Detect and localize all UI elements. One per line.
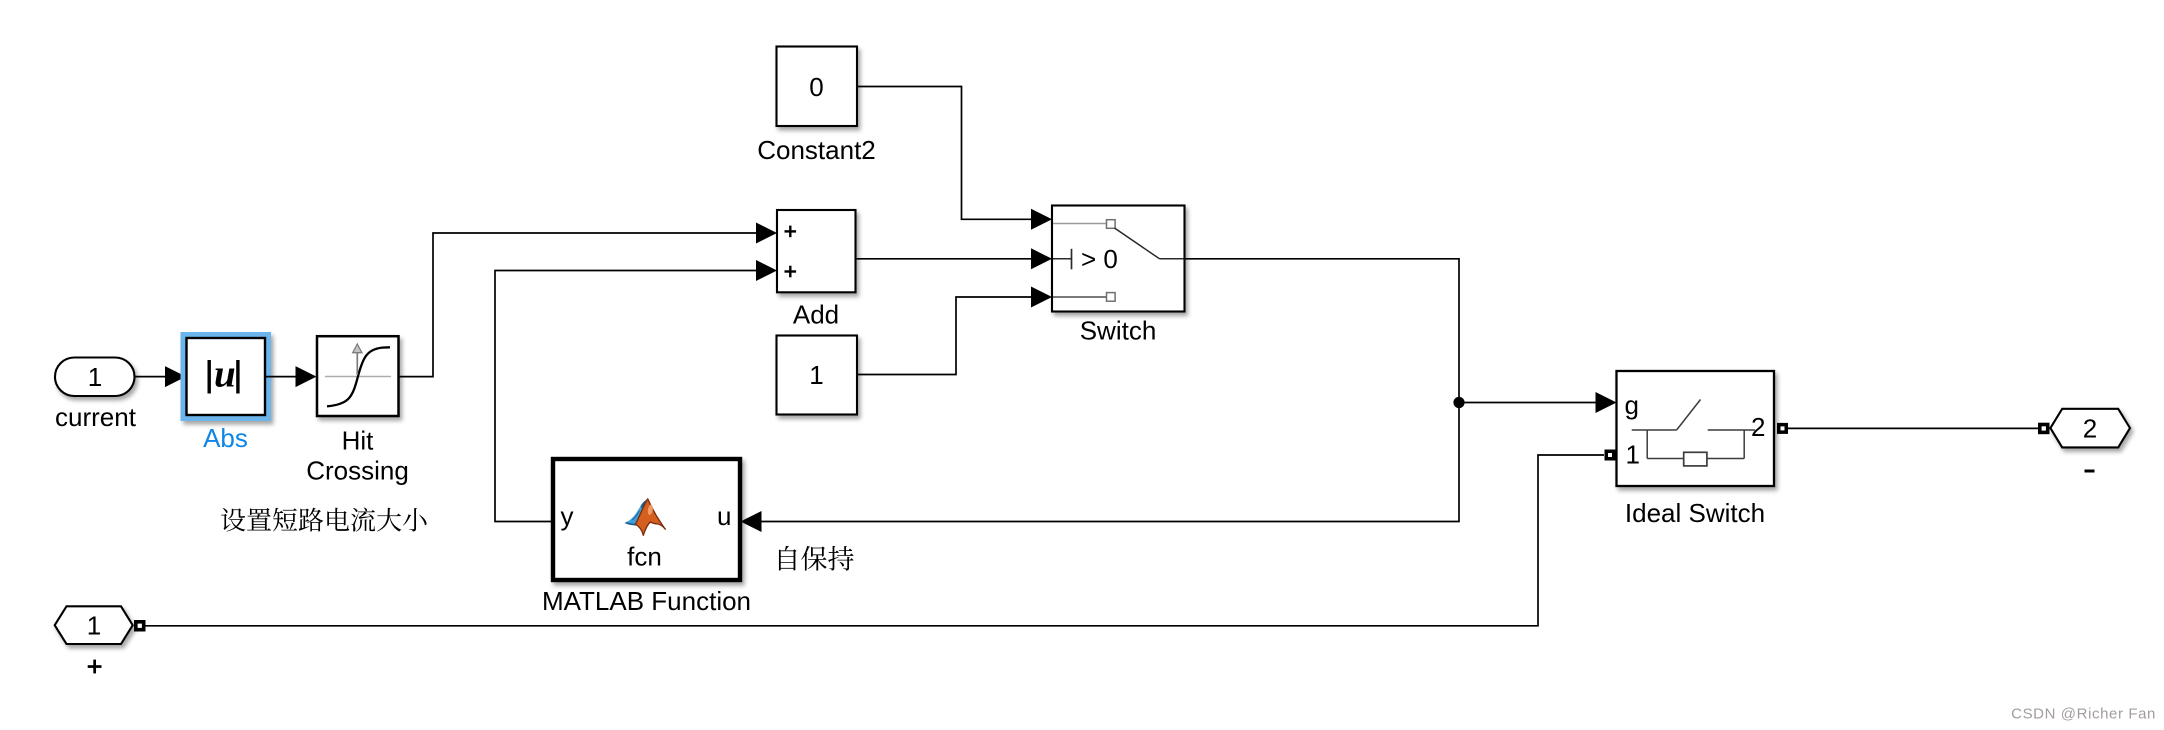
block Constant1 (value 1) bbox=[777, 336, 858, 415]
svg-text:0: 0 bbox=[809, 72, 823, 102]
svg-text:CSDN @Richer Fan: CSDN @Richer Fan bbox=[2011, 706, 2156, 723]
port square inport1 bbox=[134, 620, 146, 632]
block Add bbox=[777, 210, 856, 292]
svg-text:g: g bbox=[1625, 390, 1639, 420]
svg-text:u: u bbox=[717, 501, 731, 531]
svg-text:2: 2 bbox=[1751, 412, 1765, 442]
wire Constant1 to Switch in3 bbox=[857, 297, 1032, 375]
port square Ideal Switch 2 bbox=[1777, 423, 1788, 434]
svg-text:Hit: Hit bbox=[342, 426, 375, 456]
svg-text:current: current bbox=[55, 402, 137, 432]
wire inport1 to Abs bbox=[135, 376, 167, 378]
block Ideal Switch bbox=[1617, 371, 1775, 486]
wire inport1 to Ideal Switch port1 bbox=[146, 455, 1605, 626]
label + bbox=[88, 660, 102, 674]
svg-text:1: 1 bbox=[1626, 440, 1640, 470]
wire Abs to Hit Crossing bbox=[265, 376, 296, 378]
svg-text:y: y bbox=[561, 501, 574, 531]
block Switch bbox=[1052, 206, 1185, 312]
label - bbox=[2085, 470, 2095, 473]
svg-text:u: u bbox=[214, 353, 236, 396]
svg-text:Switch: Switch bbox=[1080, 316, 1157, 346]
wire junction to Ideal Switch g bbox=[1459, 402, 1596, 404]
block Constant2 bbox=[777, 47, 858, 127]
svg-text:Add: Add bbox=[793, 300, 839, 330]
wire Constant2 to Switch in1 bbox=[857, 87, 1032, 220]
svg-text:MATLAB Function: MATLAB Function bbox=[542, 586, 751, 616]
inport 1 (current) oval bbox=[55, 358, 135, 397]
wire Ideal Switch port2 to outport bbox=[1788, 427, 2038, 429]
svg-text:1: 1 bbox=[87, 611, 101, 641]
block Abs (selected) bbox=[184, 335, 269, 418]
junction node bbox=[1453, 397, 1464, 408]
port square Ideal Switch 1 bbox=[1605, 450, 1616, 461]
svg-text:1: 1 bbox=[88, 362, 102, 392]
wire HitCrossing to Add in1 bbox=[399, 233, 757, 377]
wire Add to Switch in2 bbox=[856, 258, 1032, 260]
block MATLAB Function bbox=[553, 459, 740, 580]
wire Switch out feedback to MATLAB u bbox=[762, 259, 1460, 522]
inport hexagon 1 (+) bbox=[55, 606, 133, 644]
svg-text:Constant2: Constant2 bbox=[757, 135, 876, 165]
svg-text:> 0: > 0 bbox=[1081, 244, 1118, 274]
svg-text:fcn: fcn bbox=[627, 542, 662, 572]
block Hit Crossing bbox=[317, 336, 399, 416]
annotation 设置短路电流大小 bbox=[221, 507, 426, 531]
svg-text:Crossing: Crossing bbox=[306, 456, 409, 486]
svg-text:1: 1 bbox=[809, 360, 823, 390]
wire MATLAB y out to Add in2 bbox=[495, 271, 757, 522]
port square outport2 bbox=[2038, 423, 2050, 435]
outport hexagon 2 (-) bbox=[2050, 409, 2130, 448]
svg-text:Ideal Switch: Ideal Switch bbox=[1625, 498, 1765, 528]
svg-text:Abs: Abs bbox=[203, 423, 248, 453]
svg-text:2: 2 bbox=[2083, 414, 2097, 444]
annotation 自保持 bbox=[779, 546, 854, 571]
